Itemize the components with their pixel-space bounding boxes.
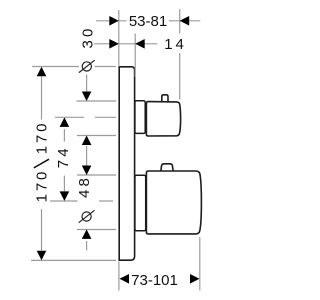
dimension 73-101 arrows [120,274,200,284]
dimension Ø48 vertical line [86,241,88,251]
bottom handle knob with tab [146,164,201,234]
projection line L3 top knob axis y=117.3 [55,116,116,118]
top handle sleeve [135,101,145,134]
wall plate (side view) [119,67,134,260]
projection line L4 knob bottom y=135.5 [77,135,116,137]
dimension Ø30 vertical line [86,75,88,166]
projection line L8 plate bottom y=260.4 [31,259,116,261]
svg-text:48: 48 [76,175,93,198]
projection line L2 knob top y=101 [77,100,117,102]
dimension Ø30 arrows [82,92,92,146]
svg-text:170: 170 [33,169,50,202]
dimension 170/170 arrows [37,67,47,261]
dimension 14 arrows [109,39,144,49]
dimension 53-81 arrows [109,16,189,26]
extension line E3 (x=179.7) [179,9,181,100]
dimension 14 line [94,43,158,45]
extension line E2 (x=135.2) [134,34,136,78]
dimension 170/170 line [41,77,43,251]
top handle knob with tab [146,95,180,136]
projection line L1 plate top y=66.5 [32,66,116,68]
extension line E5 (x=118.9 bottom left) [118,262,120,291]
dimension 53-81 line [96,20,200,22]
dimension 74 line [63,129,65,191]
projection line L5 big sleeve top y=175 [77,174,116,176]
projection line L7 big sleeve bottom y=229.5 [77,229,116,231]
svg-text:30: 30 [79,25,96,48]
bottom handle sleeve [135,175,146,231]
dimension Ø48 symbol [79,210,95,222]
svg-text:14: 14 [164,36,186,53]
extension line E4 (x=199.8 bottom right) [199,237,201,291]
svg-text:170: 170 [33,121,50,154]
extension line E1 (x=118.8 top) [118,10,120,67]
svg-text:73-101: 73-101 [131,272,178,289]
svg-text:53-81: 53-81 [129,13,167,30]
dimension 74 arrows [60,117,70,200]
projection line L6 big knob axis y=201 [50,200,113,202]
dimension Ø48 arrows [82,166,92,239]
svg-text:74: 74 [55,145,72,168]
dimension Ø30 symbol [79,60,95,72]
